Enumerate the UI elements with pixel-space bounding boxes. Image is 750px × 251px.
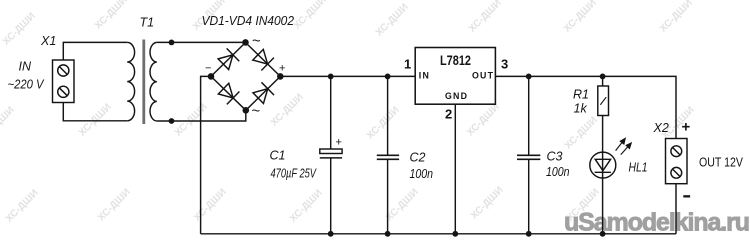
svg-text:~220 V: ~220 V: [8, 77, 45, 91]
LED HL1 emission arrows: [616, 138, 632, 154]
svg-text:IN: IN: [419, 71, 430, 81]
diode VD2 (top to right): [252, 48, 274, 70]
wire X2 to ground rail: [675, 184, 677, 234]
resistor R1 power-rating slash: [600, 97, 606, 105]
svg-text:470µF 25V: 470µF 25V: [271, 167, 318, 181]
svg-text:1k: 1k: [574, 102, 588, 116]
svg-text:OUT 12V: OUT 12V: [699, 155, 743, 170]
junction dot bridge AC bottom: [243, 107, 250, 114]
svg-text:HL1: HL1: [629, 161, 648, 175]
wire ground rail: [201, 233, 676, 235]
svg-text:L7812: L7812: [440, 53, 471, 68]
resistor R1 body: [598, 86, 609, 116]
junction dot secondary top: [169, 40, 175, 46]
junction dot bridge minus: [208, 73, 215, 80]
wire R1 top: [602, 76, 604, 86]
X2 minus mark: [683, 195, 690, 197]
svg-text:~: ~: [252, 103, 261, 120]
svg-text:OUT: OUT: [472, 71, 494, 81]
svg-text:100n: 100n: [410, 167, 434, 181]
junction dot bridge plus: [277, 73, 284, 80]
svg-text:R1: R1: [573, 87, 589, 101]
capacitor C2 plates: [377, 155, 399, 159]
wire X1 top to T1 primary: [63, 42, 127, 60]
svg-text:100n: 100n: [546, 165, 570, 179]
wire C1 bottom: [330, 159, 332, 234]
svg-text:+: +: [279, 63, 285, 75]
junction dot secondary bottom: [169, 118, 175, 124]
junction dot R1 top: [600, 74, 606, 80]
wire T1 secondary top to bridge AC top: [157, 41, 246, 43]
wire plus rail bridge to U1 pin1: [280, 75, 415, 77]
svg-text:C1: C1: [270, 149, 286, 163]
connector X2: [666, 139, 688, 184]
wire X1 bottom to T1 primary: [63, 103, 127, 121]
svg-text:VD1-VD4 IN4002: VD1-VD4 IN4002: [202, 13, 295, 28]
svg-text:X1: X1: [40, 34, 56, 48]
wire C2 top: [387, 76, 389, 155]
connector X1: [53, 60, 75, 103]
LED HL1 cathode bar: [595, 171, 611, 173]
svg-text:1: 1: [404, 56, 411, 71]
wire C1 top: [330, 76, 332, 149]
capacitor C3 plates: [517, 155, 540, 159]
wire bridge minus to ground rail: [201, 76, 211, 233]
wire C2 bottom: [387, 160, 389, 234]
svg-text:X2: X2: [653, 121, 669, 135]
junction dot C3 bottom: [526, 231, 532, 237]
junction dot C1 bottom: [328, 231, 334, 237]
LED HL1 triangle: [595, 159, 610, 170]
bridge rectifier diamond: [211, 43, 280, 111]
capacitor C1 electrolytic plates: [320, 149, 342, 158]
svg-text:C2: C2: [410, 151, 426, 165]
svg-text:IN: IN: [19, 60, 32, 74]
wire C3 bottom: [528, 160, 530, 234]
wire T1 secondary bottom to bridge AC bottom: [157, 110, 246, 121]
junction dot C1 top: [328, 74, 334, 80]
regulator U1 L7812 body: [415, 48, 495, 105]
junction dot HL1 bottom: [600, 231, 606, 237]
diode VD4 (bottom to right): [252, 82, 274, 104]
diode VD1 (left to top): [217, 48, 239, 70]
transformer T1 secondary winding: [150, 42, 157, 121]
junction dot GND bottom: [452, 231, 458, 237]
junction dot bridge AC top: [242, 39, 249, 46]
diode VD3 (left to bottom): [217, 82, 239, 104]
wire U1 pin3 out rail to X2: [495, 76, 676, 138]
svg-text:−: −: [205, 63, 211, 75]
svg-text:+: +: [682, 119, 691, 136]
svg-text:C3: C3: [547, 150, 563, 164]
svg-text:3: 3: [501, 56, 508, 71]
svg-text:T1: T1: [140, 16, 155, 30]
junction dot C2 top: [385, 74, 391, 80]
transformer T1 core: [142, 40, 145, 125]
wire C3 top: [528, 76, 530, 155]
transformer T1 primary winding: [127, 42, 134, 120]
svg-text:~: ~: [252, 33, 261, 50]
junction dot C2 bottom: [385, 231, 391, 237]
wire U1 pin2 GND down: [454, 104, 456, 234]
svg-text:GND: GND: [445, 91, 468, 101]
wire R1 to HL1 and ground rail: [602, 116, 604, 234]
junction dot C3 top: [526, 74, 532, 80]
svg-text:+: +: [336, 137, 342, 149]
svg-text:2: 2: [445, 106, 452, 121]
svg-text:uSamodelkina.ru: uSamodelkina.ru: [564, 209, 749, 237]
LED HL1 circle: [590, 152, 616, 178]
